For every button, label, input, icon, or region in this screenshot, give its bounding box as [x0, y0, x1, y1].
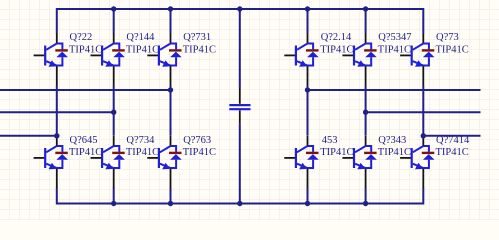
svg-text:Q?7414: Q?7414: [436, 135, 470, 146]
wire: column2 midpoint: [113, 86, 115, 136]
capacitor C1 top pin: [239, 88, 241, 104]
wire: column3 collector drop: [170, 9, 172, 34]
junction dot bottom bus x2: [111, 201, 116, 206]
transistor Q?144 (TIP41C) with freewheeling diode: [91, 34, 125, 86]
wire: column5 midpoint: [365, 86, 367, 136]
junction dot tap left C: [54, 133, 59, 138]
transistor Q?645 (TIP41C) with freewheeling diode: [34, 136, 68, 188]
svg-text:TIP41C: TIP41C: [69, 147, 102, 158]
capacitor C1 bottom plate: [229, 108, 250, 110]
wire: column5 collector drop: [365, 9, 367, 34]
junction dot bottom bus capacitor: [237, 201, 242, 206]
svg-text:TIP41C: TIP41C: [320, 44, 353, 55]
wire: phase tap left A: [0, 89, 171, 91]
svg-text:453: 453: [322, 135, 338, 146]
junction dot bottom bus x4: [305, 201, 310, 206]
svg-text:TIP41C: TIP41C: [378, 147, 411, 158]
transistor Q?22 (TIP41C) with freewheeling diode: [34, 34, 68, 86]
capacitor C1 bottom pin: [239, 110, 241, 123]
svg-text:TIP41C: TIP41C: [126, 44, 159, 55]
svg-text:Q?2.14: Q?2.14: [321, 32, 352, 43]
capacitor C1 top plate: [229, 104, 250, 106]
junction dot top bus capacitor: [237, 6, 242, 11]
svg-text:TIP41C: TIP41C: [183, 44, 216, 55]
svg-text:TIP41C: TIP41C: [126, 147, 159, 158]
wire: phase tap right C: [423, 135, 480, 137]
wire: column1 midpoint: [56, 86, 58, 136]
transistor Q?731 (TIP41C) with freewheeling diode: [147, 34, 181, 86]
wire: phase tap right B: [366, 111, 481, 113]
svg-text:TIP41C: TIP41C: [320, 147, 353, 158]
junction dot tap left A: [168, 87, 173, 92]
svg-text:TIP41C: TIP41C: [183, 147, 216, 158]
wire: column4 collector drop: [307, 9, 309, 34]
svg-text:Q?763: Q?763: [183, 135, 211, 146]
transistor Q?5347 (TIP41C) with freewheeling diode: [342, 34, 376, 86]
wire: column6 midpoint: [422, 86, 424, 136]
wire: column3 emitter rise: [170, 188, 172, 204]
transistor Q?73 (TIP41C) with freewheeling diode: [400, 34, 434, 86]
junction dot tap right B: [363, 110, 368, 115]
capacitor C1 bottom wire: [239, 124, 241, 204]
transistor Q?2.14 (TIP41C) with freewheeling diode: [284, 34, 318, 86]
svg-text:TIP41C: TIP41C: [378, 44, 411, 55]
wire: phase tap right A: [308, 89, 481, 91]
wire: phase tap left B: [0, 111, 114, 113]
capacitor C1 top wire: [239, 9, 241, 88]
transistor Q?7414 (TIP41C) with freewheeling diode: [400, 136, 434, 188]
top DC bus wire: [57, 9, 424, 34]
wire: column3 midpoint: [170, 86, 172, 136]
transistor Q?734 (TIP41C) with freewheeling diode: [91, 136, 125, 188]
junction dot bottom bus x5: [363, 201, 368, 206]
svg-text:Q?343: Q?343: [378, 135, 406, 146]
svg-text:TIP41C: TIP41C: [436, 147, 469, 158]
wire: column2 collector drop: [113, 9, 115, 34]
junction dot top bus x3: [168, 6, 173, 11]
wire: column4 midpoint: [307, 86, 309, 136]
wire: column4 emitter rise: [307, 188, 309, 204]
junction dot top bus x5: [363, 6, 368, 11]
svg-text:TIP41C: TIP41C: [69, 44, 102, 55]
transistor Q?763 (TIP41C) with freewheeling diode: [147, 136, 181, 188]
transistor 453 (TIP41C) with freewheeling diode: [284, 136, 318, 188]
bottom DC bus wire: [57, 188, 424, 204]
junction dot top bus x4: [305, 6, 310, 11]
svg-text:Q?734: Q?734: [126, 135, 155, 146]
junction dot top bus x2: [111, 6, 116, 11]
svg-text:Q?73: Q?73: [436, 32, 459, 43]
junction dot tap left B: [111, 110, 116, 115]
wire: phase tap left C: [0, 135, 57, 137]
junction dot bottom bus x3: [168, 201, 173, 206]
wire: column2 emitter rise: [113, 188, 115, 204]
svg-text:Q?5347: Q?5347: [378, 32, 411, 43]
transistor Q?343 (TIP41C) with freewheeling diode: [342, 136, 376, 188]
wire: column5 emitter rise: [365, 188, 367, 204]
svg-text:Q?645: Q?645: [70, 135, 98, 146]
svg-text:Q?731: Q?731: [183, 32, 211, 43]
junction dot tap right C: [421, 133, 426, 138]
junction dot tap right A: [305, 87, 310, 92]
svg-text:Q?22: Q?22: [70, 32, 93, 43]
svg-text:TIP41C: TIP41C: [436, 44, 469, 55]
svg-text:Q?144: Q?144: [126, 32, 155, 43]
